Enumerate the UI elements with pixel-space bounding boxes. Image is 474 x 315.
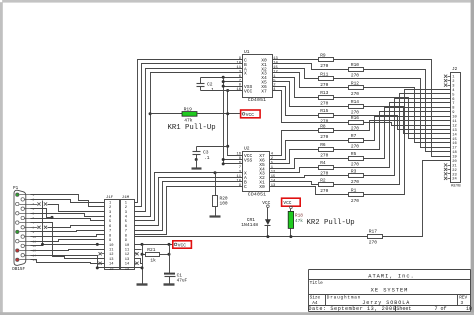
node CR1 junction on KR2 line <box>266 235 269 238</box>
svg-text:R8: R8 <box>320 124 326 130</box>
wire R7 to J2 pin 10 <box>364 117 451 141</box>
svg-text:17: 17 <box>452 147 456 151</box>
svg-text:J1F: J1F <box>106 196 114 200</box>
svg-text:47k: 47k <box>295 218 303 224</box>
svg-text:21: 21 <box>452 164 457 168</box>
svg-text:9: 9 <box>109 239 111 243</box>
wire to R21 <box>143 245 146 255</box>
wire U2.X to R20 <box>215 173 217 196</box>
node C3 bottom junction <box>195 158 198 161</box>
wire U1.X7 to R16 <box>273 91 349 123</box>
resistor R10 270 <box>349 62 364 79</box>
wire U1.X2 to R11 <box>273 69 319 79</box>
svg-text:15: 15 <box>452 138 456 142</box>
wire with NC mark to J1F pin3 <box>44 202 105 211</box>
J2 no-connect pins 1-3 and 21-24 <box>444 75 451 180</box>
wire U2.X3 to R4 <box>270 168 319 173</box>
svg-text:12: 12 <box>109 253 113 257</box>
node R21 feed junction <box>141 253 144 256</box>
svg-text:11: 11 <box>452 120 457 124</box>
power symbol VCC (red boxed) for KR2 <box>282 198 301 209</box>
connector J1M <box>121 196 135 272</box>
svg-text:R10: R10 <box>351 62 359 68</box>
resistor R14 270 <box>349 99 364 116</box>
svg-text:2: 2 <box>109 206 111 210</box>
wire P1 pin9 to J1F pin7 <box>31 231 105 232</box>
node junctions on VCC line <box>141 243 171 246</box>
svg-text:R1: R1 <box>351 188 357 194</box>
svg-text:2: 2 <box>125 206 127 210</box>
svg-text:13: 13 <box>125 258 129 262</box>
svg-text:22: 22 <box>452 169 456 173</box>
wire C3 bottom rail to VSS rail <box>196 160 198 168</box>
svg-text:14: 14 <box>125 263 130 267</box>
wire U2.X2 to R3 <box>270 176 349 178</box>
svg-text:R20: R20 <box>220 195 228 201</box>
svg-text:2: 2 <box>452 80 454 84</box>
wire R15 to J2 pin 13 <box>334 116 451 130</box>
svg-text:Sheet: Sheet <box>396 306 411 312</box>
wire J1M pin11 step to R21 row <box>135 249 142 251</box>
wire VSS rail tie to U1 VEE <box>224 81 243 83</box>
svg-text:R21: R21 <box>147 247 155 253</box>
svg-text:KR1 Pull-Up: KR1 Pull-Up <box>168 124 216 132</box>
wire commoning vertical <box>42 201 44 244</box>
op IC U2 CD4051 analog multiplexer <box>243 145 270 197</box>
svg-text:8: 8 <box>452 107 454 111</box>
wire R13 to J2 pin 15 <box>334 98 451 139</box>
svg-text:R13: R13 <box>320 90 328 96</box>
wire R9 to J2 pin 19 <box>334 60 451 157</box>
connector J1F <box>105 196 120 272</box>
wire P1 pin4 down join <box>31 209 53 218</box>
svg-text:16: 16 <box>236 153 241 157</box>
no-connect stub P1 pin3 <box>31 202 41 205</box>
power symbol VCC (red boxed) for KR1 <box>241 110 261 118</box>
svg-text:U1: U1 <box>244 49 250 55</box>
svg-text:7: 7 <box>239 166 241 170</box>
wire U1.X4 to R13 <box>273 78 319 98</box>
resistor R20 100 <box>213 195 228 206</box>
svg-text:7: 7 <box>452 102 454 106</box>
svg-text:270: 270 <box>351 73 359 79</box>
title block frame <box>309 270 471 312</box>
svg-text:R7: R7 <box>351 133 357 139</box>
svg-text:13: 13 <box>109 258 113 262</box>
svg-text:3: 3 <box>125 211 127 215</box>
node VSS rail junctions at U1 <box>222 80 225 87</box>
bus wire J1M pin 4 to U1 pin 3 <box>135 73 243 217</box>
bus wire J1M pin 3 to U1 pin 11 <box>135 69 243 212</box>
power symbol VCC above CR1 <box>262 200 270 207</box>
svg-text:6: 6 <box>452 98 454 102</box>
wire U2.X6 to R7 <box>270 141 349 160</box>
svg-text:VSS: VSS <box>244 157 253 163</box>
svg-text:20: 20 <box>452 160 456 164</box>
connector P1 DB15F shell <box>12 186 26 272</box>
resistor R11 270 <box>319 71 334 88</box>
resistor R15 270 <box>319 108 334 125</box>
svg-text:Draughtman: Draughtman <box>327 296 361 301</box>
svg-text:C1: C1 <box>177 272 183 278</box>
wire U1.X5 to R14 <box>273 82 349 107</box>
wire R6 to J2 pin 9 <box>334 112 451 150</box>
svg-text:VCC: VCC <box>244 88 253 94</box>
resistor R9 270 <box>319 52 334 69</box>
resistor R5 270 <box>349 151 364 168</box>
svg-text:14: 14 <box>109 263 114 267</box>
wire P1 pin14 to J1F pin15 <box>31 256 105 268</box>
svg-text:270: 270 <box>320 153 328 159</box>
wire C2 loop top (U1 INH row) <box>201 77 243 79</box>
P1 pin numbers <box>33 194 37 262</box>
resistor R8 270 <box>319 124 334 141</box>
wire R20 to ground <box>215 207 217 216</box>
svg-text:5: 5 <box>33 213 35 216</box>
svg-text:8: 8 <box>125 234 127 238</box>
svg-text:U2: U2 <box>244 145 250 151</box>
svg-text:5: 5 <box>109 220 111 224</box>
ground below R21 rail <box>137 283 148 285</box>
svg-text:XE SYSTEM: XE SYSTEM <box>371 288 409 294</box>
wire VSS rail tie to U2 row 3 <box>224 163 243 165</box>
wire R3 to J2 pin 6 <box>364 99 451 176</box>
bus wire J1M pin 8 to U2 <box>135 187 243 235</box>
svg-text:CD4051: CD4051 <box>248 97 266 103</box>
svg-text:7: 7 <box>125 230 127 234</box>
svg-text:.1: .1 <box>204 155 210 161</box>
svg-text:ATARI, Inc.: ATARI, Inc. <box>368 273 415 279</box>
svg-text:12: 12 <box>125 253 129 257</box>
wire KR2 line from J1M to R17 <box>135 236 368 238</box>
wire R21 to C1 rail <box>160 254 170 256</box>
wire P1 pin6 to J1F pin5 <box>31 219 105 221</box>
svg-text:DB15F: DB15F <box>12 267 25 272</box>
node KR1 junction on bus <box>149 112 152 115</box>
U2 pin number labels <box>236 153 276 188</box>
svg-text:R14: R14 <box>351 99 359 105</box>
wire P1 pin13 red to J1F pin11 <box>31 250 105 251</box>
svg-text:X: X <box>244 71 247 77</box>
svg-text:8: 8 <box>109 234 111 238</box>
wire C2 loop bottom (U1 VCC row) <box>201 90 243 92</box>
svg-text:R11: R11 <box>320 71 328 77</box>
svg-text:270: 270 <box>320 82 328 88</box>
wire R2 to J2 pin 5 <box>334 94 451 185</box>
svg-text:11: 11 <box>236 175 241 179</box>
svg-text:18: 18 <box>452 151 456 155</box>
wire J1F pin15 row to ground rail <box>98 255 143 284</box>
ground below C3 <box>192 167 202 169</box>
resistor R17 270 <box>368 229 383 246</box>
svg-text:7: 7 <box>109 230 111 234</box>
svg-text:3: 3 <box>452 84 454 88</box>
svg-text:VCC: VCC <box>283 200 291 206</box>
svg-text:R19: R19 <box>184 106 193 112</box>
wire P1 pin5 to J1F pin4 <box>31 214 105 217</box>
op IC U1 CD4051 analog multiplexer <box>243 49 273 103</box>
no-connect stub P1 pin8 <box>31 226 105 229</box>
wire U1.X3 to R12 <box>273 73 349 88</box>
resistor R21 1k <box>146 247 160 264</box>
resistor R3 270 <box>349 169 364 186</box>
svg-text:KR2 Pull-Up: KR2 Pull-Up <box>307 219 355 227</box>
wire R4 to J2 pin 7 <box>334 103 451 168</box>
wire U2.X4 to R5 <box>270 159 349 169</box>
wire P1 pin10 to J1F pin8 <box>31 235 105 237</box>
connector J2 KEYB <box>451 67 462 189</box>
node junction at J1F pin15 <box>96 266 99 269</box>
svg-text:R9: R9 <box>320 52 326 58</box>
svg-text:5: 5 <box>125 220 127 224</box>
svg-text:C3: C3 <box>203 150 209 156</box>
svg-text:8: 8 <box>33 227 35 230</box>
svg-text:R2: R2 <box>320 177 326 183</box>
svg-text:R17: R17 <box>369 229 378 235</box>
svg-text:270: 270 <box>320 100 328 106</box>
svg-text:47uF: 47uF <box>177 278 188 283</box>
svg-text:3: 3 <box>109 211 111 215</box>
svg-text:R12: R12 <box>351 80 359 86</box>
wire U1.X6 to R15 <box>273 87 319 116</box>
resistor R18 47k pull-up <box>288 209 303 237</box>
resistor R16 270 <box>349 115 364 132</box>
bus wire J1M pin 5 to U2 <box>135 173 243 221</box>
svg-text:9: 9 <box>452 111 454 115</box>
wire R1 to J2 pin 4 <box>364 90 451 195</box>
wire R17 to J2 pin 20 <box>383 161 451 237</box>
svg-text:15: 15 <box>273 66 278 70</box>
capacitor C1 47uF <box>164 272 188 283</box>
P1 pin circles <box>16 193 25 261</box>
svg-text:6: 6 <box>109 225 111 229</box>
svg-text:KEYB: KEYB <box>451 185 461 189</box>
svg-text:14: 14 <box>452 133 457 137</box>
svg-text:Date: September 13, 2000: Date: September 13, 2000 <box>308 306 396 312</box>
svg-text:12: 12 <box>452 124 456 128</box>
svg-text:10: 10 <box>109 244 113 248</box>
bus wire J1M pin 2 to U1 pin 10 <box>135 64 243 207</box>
svg-text:3: 3 <box>461 301 464 306</box>
resistor R19 47k pull-up <box>182 106 197 123</box>
wire P1 pin11 to J1F pin9 <box>31 240 105 242</box>
diode CR1 1N4148 <box>241 208 271 237</box>
svg-text:47k: 47k <box>184 117 193 123</box>
svg-text:5: 5 <box>452 93 454 97</box>
svg-text:CD4051: CD4051 <box>248 192 266 198</box>
J1M no-connect pins 12 and 14 <box>135 252 139 265</box>
node R18 junction on KR2 line <box>289 235 292 238</box>
wire KR1 to R19 <box>151 113 183 115</box>
node R21 right junction <box>168 253 171 256</box>
svg-text:270: 270 <box>351 109 359 115</box>
svg-text:11: 11 <box>236 66 241 70</box>
svg-text:VCC: VCC <box>178 242 186 248</box>
wire R19 to VCC <box>198 113 242 115</box>
svg-text:R5: R5 <box>351 151 357 157</box>
wire U2.X5 to R6 <box>270 150 319 164</box>
svg-text:R16: R16 <box>351 115 359 121</box>
svg-text:VCC: VCC <box>246 112 254 118</box>
svg-text:270: 270 <box>320 134 328 140</box>
wire P1 pin15 red stub <box>31 260 105 264</box>
svg-text:R18: R18 <box>295 213 303 219</box>
svg-text:19: 19 <box>452 156 456 160</box>
wire P1 pin2 staircase to J1F pin1 <box>31 200 105 203</box>
resistor R7 270 <box>349 133 364 150</box>
node VSS rail top junction <box>222 76 225 79</box>
wire P1 pin7 vertical bus <box>31 223 105 259</box>
ground below C1 <box>164 283 175 285</box>
wire U2.X0 to R1 <box>270 187 349 195</box>
P1 pin stubs <box>20 195 31 260</box>
wire down to C1 <box>169 245 171 274</box>
svg-text:9: 9 <box>125 239 127 243</box>
svg-text:6: 6 <box>125 225 127 229</box>
svg-text:P1: P1 <box>13 186 19 191</box>
svg-text:R4: R4 <box>320 160 326 166</box>
wire R12 to J2 pin 16 <box>364 88 451 143</box>
wire VCC rail U1 pin16 to U2 pin16 <box>228 91 243 156</box>
wire P1 pin1 staircase to J1F pin2 <box>31 195 105 207</box>
svg-text:270: 270 <box>351 143 359 149</box>
wire R11 to J2 pin 17 <box>334 79 451 148</box>
svg-text:11: 11 <box>109 249 114 253</box>
svg-text:R15: R15 <box>320 108 328 114</box>
svg-text:13: 13 <box>452 129 456 133</box>
resistor R1 270 <box>349 188 364 205</box>
svg-text:23: 23 <box>452 173 456 177</box>
wire C3 top to VCC rail <box>197 146 228 148</box>
bus wire J1M pin 1 to U1 pin 9 <box>135 60 243 203</box>
svg-text:J1M: J1M <box>122 196 130 200</box>
svg-text:1k: 1k <box>150 257 156 263</box>
svg-text:270: 270 <box>351 91 359 97</box>
svg-text:16: 16 <box>452 142 456 146</box>
svg-text:X0: X0 <box>259 184 265 190</box>
svg-text:10: 10 <box>452 116 456 120</box>
svg-text:VCC: VCC <box>262 200 270 206</box>
wire VSS rail tie to U1 VSS <box>224 86 243 88</box>
svg-text:270: 270 <box>320 63 328 69</box>
svg-text:270: 270 <box>351 198 359 204</box>
bus wire J1M pin 6 to U2 <box>135 178 243 226</box>
wire R14 to J2 pin 14 <box>364 107 451 134</box>
resistor R4 270 <box>319 160 334 177</box>
U1 pin number labels <box>236 57 278 92</box>
node VSS rail junctions at U2 <box>222 158 225 165</box>
wire J1M pin13 step down <box>135 259 143 264</box>
node VCC rail junctions <box>226 89 229 148</box>
capacitor C3 .1 <box>193 147 210 161</box>
wire VCC line from J1M pin10 <box>135 244 173 246</box>
svg-text:10: 10 <box>466 306 472 312</box>
resistor R2 270 <box>319 177 334 194</box>
svg-text:24: 24 <box>452 178 457 182</box>
svg-text:7 of: 7 of <box>435 306 447 312</box>
svg-text:270: 270 <box>369 239 378 245</box>
wire U2.X1 to R2 <box>270 182 319 185</box>
svg-text:Title: Title <box>310 281 324 286</box>
svg-text:13: 13 <box>271 184 276 188</box>
resistor R12 270 <box>349 80 364 97</box>
resistor R6 270 <box>319 142 334 159</box>
svg-text:1N4148: 1N4148 <box>241 222 258 228</box>
svg-text:100: 100 <box>220 201 228 207</box>
svg-text:270: 270 <box>320 188 328 194</box>
svg-text:C2: C2 <box>207 81 213 87</box>
ground below R20 <box>210 215 221 217</box>
wire VSS rail tie to U2 VSS <box>224 159 243 161</box>
node junctions on J1F pin10 net <box>41 243 99 246</box>
svg-text:R3: R3 <box>351 169 357 175</box>
wire VSS rail <box>223 78 225 164</box>
svg-text:11: 11 <box>125 249 130 253</box>
wire R16 to J2 pin 12 <box>364 123 451 126</box>
node junction on x52 bus <box>51 216 54 219</box>
svg-text:X7: X7 <box>261 88 267 94</box>
node U2.X junction to R20 <box>214 171 217 174</box>
wire R5 to J2 pin 8 <box>364 108 451 159</box>
svg-text:.1: .1 <box>209 87 215 93</box>
capacitor C2 .1 <box>197 78 215 93</box>
svg-text:15: 15 <box>271 175 276 179</box>
J1F no-connect pins 12 and 14 <box>99 252 105 265</box>
wire U2.X7 to R8 <box>270 131 319 156</box>
power symbol VCC (red boxed) near J1M <box>173 241 192 249</box>
resistor R13 270 <box>319 90 334 107</box>
node junction at 142/266 <box>141 266 144 269</box>
svg-text:R6: R6 <box>320 142 326 148</box>
wire R10 to J2 pin 18 <box>364 70 451 152</box>
wire J1M pin15 row line <box>135 267 143 269</box>
wire R8 to J2 pin 11 <box>334 121 451 131</box>
svg-text:270: 270 <box>351 162 359 168</box>
svg-text:J2: J2 <box>452 67 458 72</box>
wire U1.X1 to R10 <box>273 64 349 70</box>
wire P1 pin12 to J1F pin10 <box>31 245 105 246</box>
wire U1.X0 to R9 <box>273 59 319 61</box>
bus wire J1M pin 7 to U2 <box>135 182 243 231</box>
svg-text:C: C <box>244 184 247 190</box>
svg-text:10: 10 <box>125 244 129 248</box>
